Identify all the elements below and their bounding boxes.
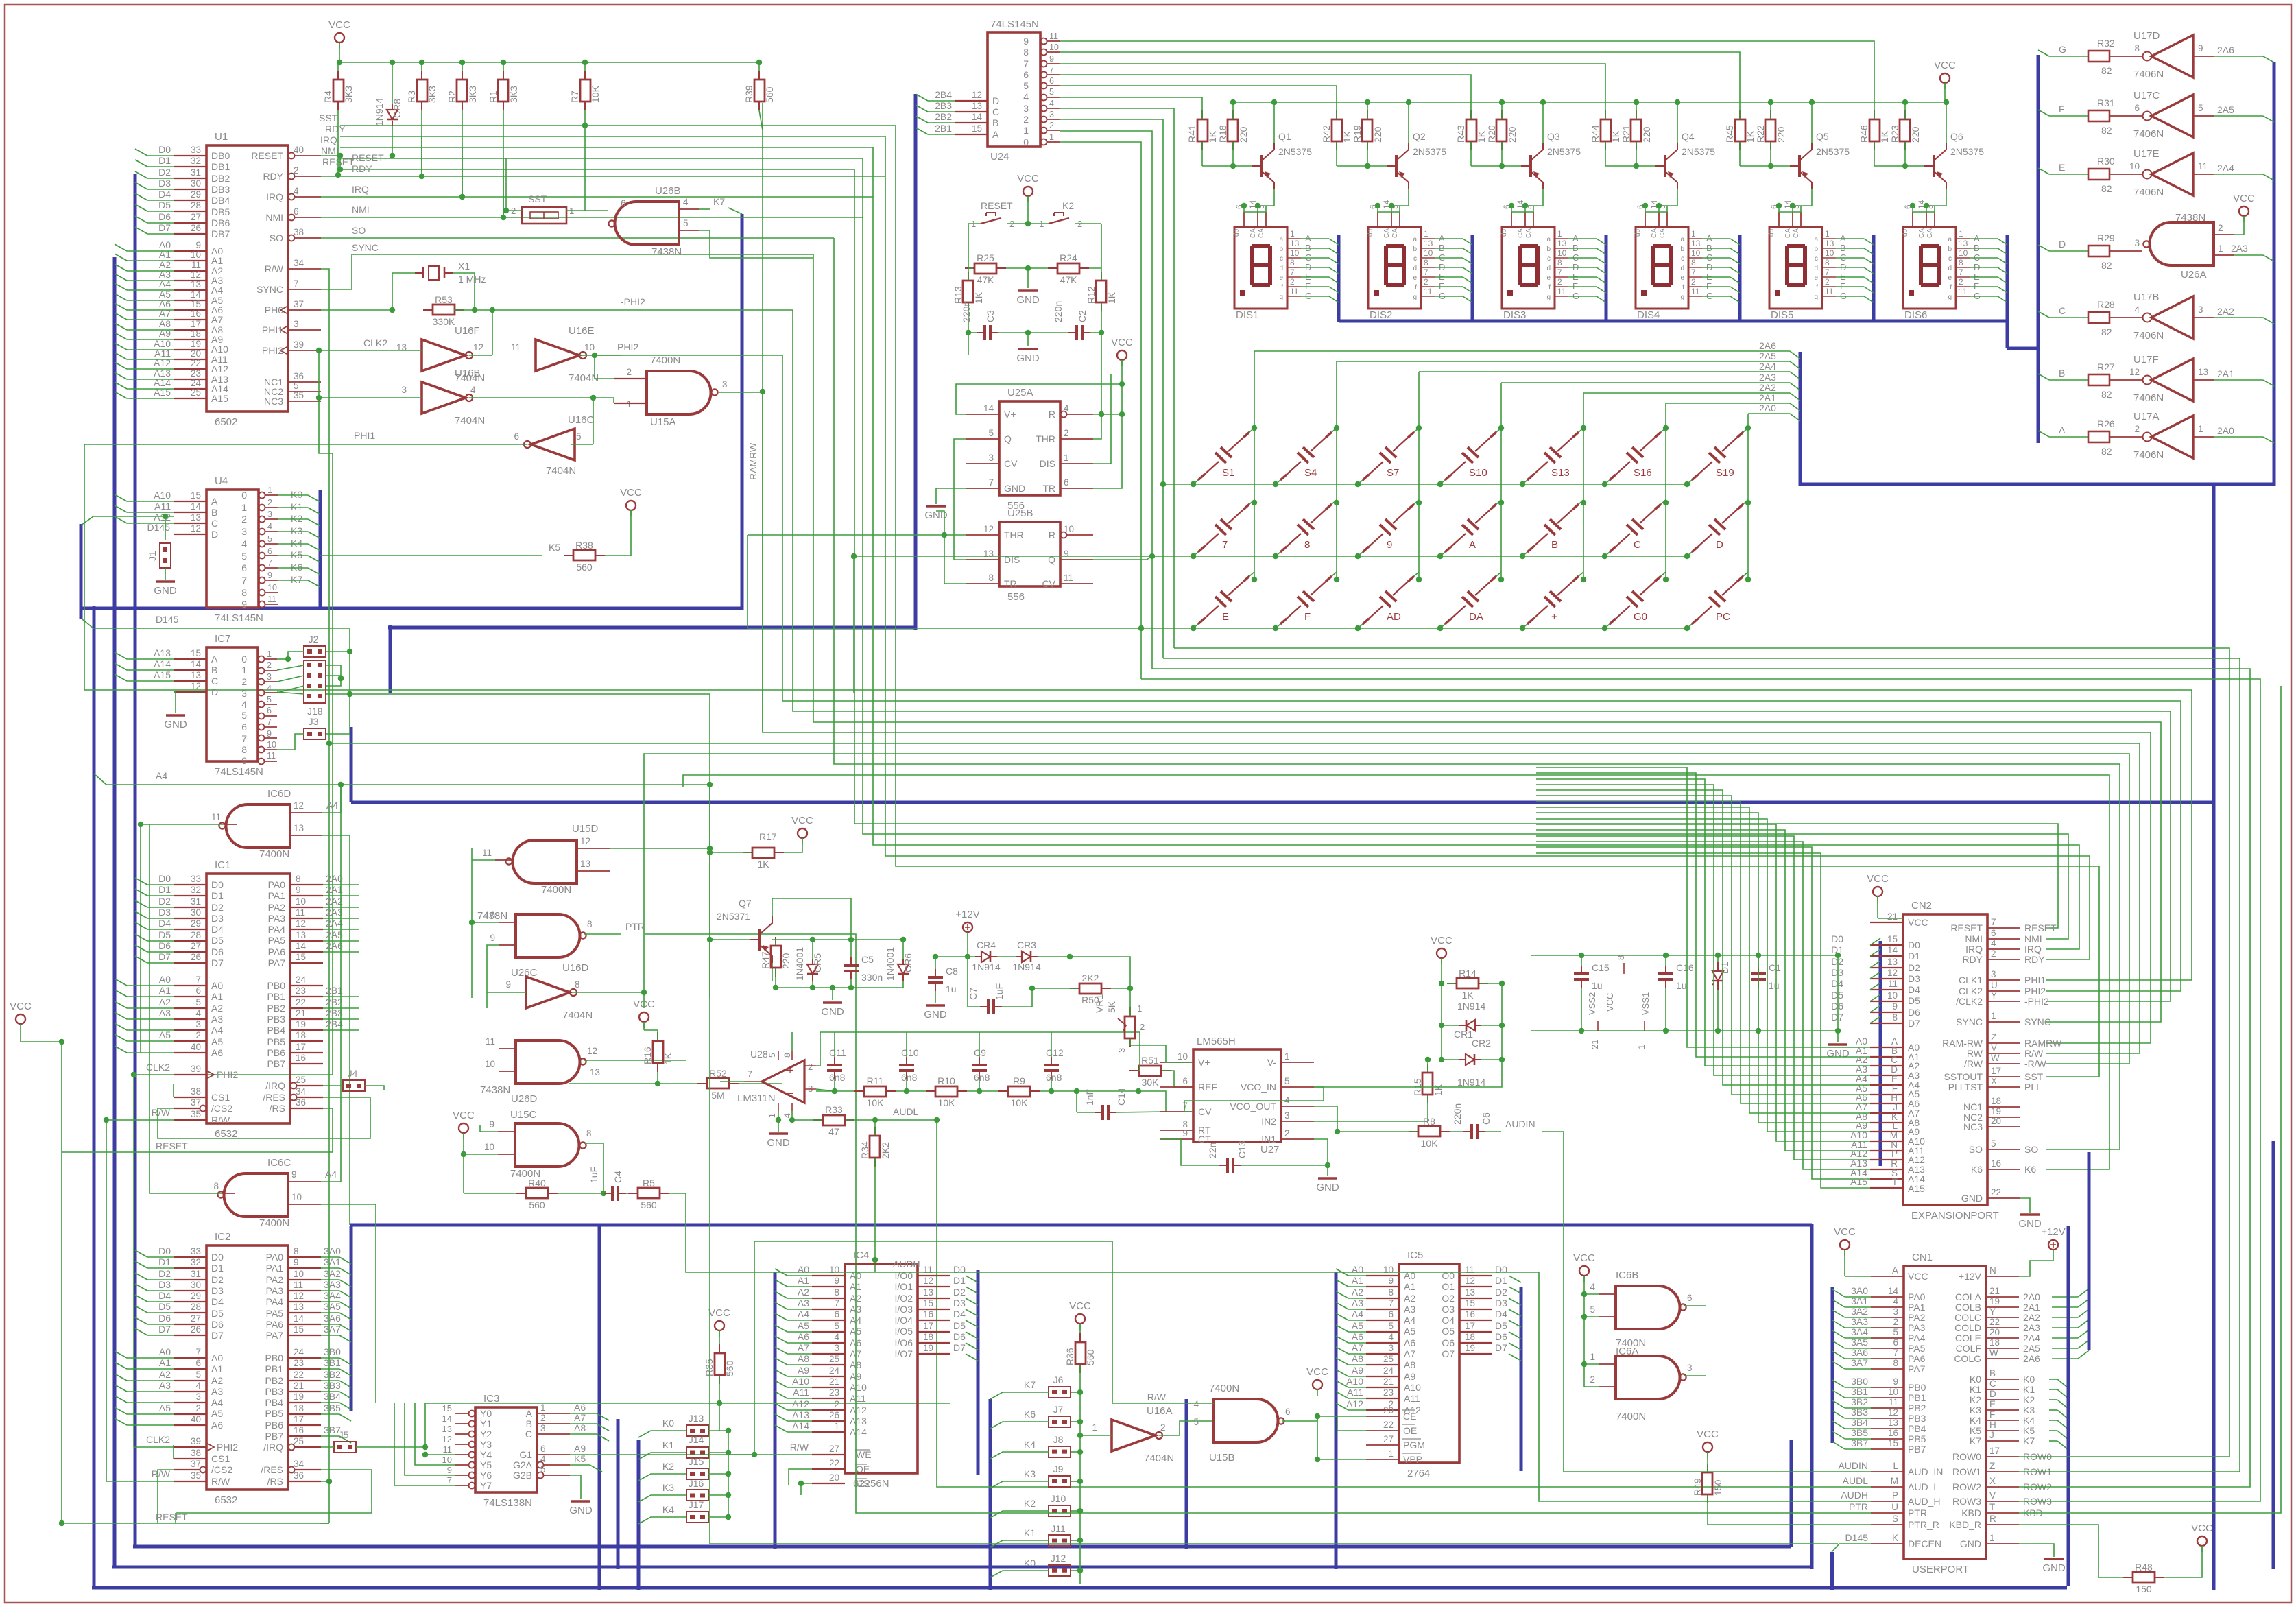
svg-text:U17A: U17A xyxy=(2133,411,2160,422)
svg-text:A12: A12 xyxy=(154,512,171,523)
svg-text:R49: R49 xyxy=(1692,1478,1703,1496)
svg-text:35: 35 xyxy=(191,1109,201,1119)
svg-text:3B7: 3B7 xyxy=(1851,1437,1868,1448)
svg-text:33: 33 xyxy=(191,1246,201,1256)
svg-text:O3: O3 xyxy=(1442,1304,1455,1315)
svg-text:5: 5 xyxy=(1193,1417,1199,1427)
svg-text:-PHI2: -PHI2 xyxy=(2024,996,2049,1007)
svg-text:C13: C13 xyxy=(1236,1141,1247,1158)
svg-text:3A7: 3A7 xyxy=(324,1324,341,1335)
svg-text:D: D xyxy=(992,95,999,106)
svg-text:D4: D4 xyxy=(953,1309,966,1320)
svg-text:EXPANSIONPORT: EXPANSIONPORT xyxy=(1911,1210,1999,1221)
svg-text:19: 19 xyxy=(1991,1106,2001,1117)
svg-text:DB5: DB5 xyxy=(211,206,230,217)
svg-text:8: 8 xyxy=(213,1181,219,1191)
svg-text:5: 5 xyxy=(294,381,299,391)
svg-text:A9: A9 xyxy=(574,1443,586,1454)
svg-text:CA: CA xyxy=(1651,228,1658,238)
svg-text:3: 3 xyxy=(1687,1363,1693,1373)
svg-text:Y1: Y1 xyxy=(480,1418,492,1429)
svg-text:A4: A4 xyxy=(211,285,223,296)
svg-text:RESET: RESET xyxy=(156,1141,188,1151)
svg-text:3: 3 xyxy=(241,526,247,537)
svg-text:37: 37 xyxy=(191,1459,201,1469)
svg-text:38: 38 xyxy=(191,1086,201,1097)
svg-text:R3: R3 xyxy=(406,91,417,103)
svg-text:a: a xyxy=(1279,236,1283,243)
svg-text:10: 10 xyxy=(1290,248,1300,258)
svg-text:220n: 220n xyxy=(1053,301,1064,322)
svg-text:J14: J14 xyxy=(689,1434,704,1445)
svg-text:1nF: 1nF xyxy=(1084,1089,1095,1106)
svg-text:8: 8 xyxy=(1825,258,1830,267)
svg-text:CA: CA xyxy=(1525,228,1533,238)
svg-text:6: 6 xyxy=(1388,1309,1394,1320)
svg-text:4: 4 xyxy=(2134,305,2140,315)
svg-text:PHI2: PHI2 xyxy=(262,345,283,356)
svg-text:PB2: PB2 xyxy=(265,1375,284,1386)
svg-text:7: 7 xyxy=(988,477,994,488)
svg-text:1K: 1K xyxy=(662,1052,673,1064)
svg-text:CA: CA xyxy=(1258,228,1265,238)
svg-text:R46: R46 xyxy=(1858,125,1869,143)
svg-text:11: 11 xyxy=(191,260,201,270)
svg-text:a: a xyxy=(1546,236,1551,243)
svg-text:8: 8 xyxy=(241,587,247,598)
svg-text:CS1: CS1 xyxy=(211,1092,230,1103)
svg-text:2: 2 xyxy=(267,660,272,670)
svg-text:5: 5 xyxy=(267,534,272,544)
svg-text:IC7: IC7 xyxy=(215,633,230,645)
svg-text:21: 21 xyxy=(1989,1286,2000,1296)
svg-text:1uF: 1uF xyxy=(588,1167,599,1183)
svg-text:11: 11 xyxy=(1049,32,1058,41)
svg-text:2: 2 xyxy=(626,367,632,377)
svg-text:WE: WE xyxy=(856,1449,872,1460)
svg-text:1N4001: 1N4001 xyxy=(885,947,896,981)
svg-text:A4: A4 xyxy=(1352,1309,1363,1320)
svg-text:c: c xyxy=(1413,255,1417,263)
svg-text:C: C xyxy=(2059,305,2066,316)
svg-text:10K: 10K xyxy=(867,1097,885,1108)
svg-text:PB4: PB4 xyxy=(1908,1423,1926,1434)
svg-text:9: 9 xyxy=(1892,1001,1898,1012)
svg-text:RESET: RESET xyxy=(156,1512,188,1523)
svg-text:2A3: 2A3 xyxy=(2023,1322,2040,1333)
svg-text:3B1: 3B1 xyxy=(1851,1386,1868,1397)
svg-text:CV: CV xyxy=(1198,1106,1212,1117)
svg-text:NMI: NMI xyxy=(2024,933,2042,944)
svg-text:9: 9 xyxy=(241,599,247,610)
svg-text:220: 220 xyxy=(1775,126,1786,143)
svg-text:1K: 1K xyxy=(973,291,984,304)
svg-text:2: 2 xyxy=(1284,1128,1290,1138)
svg-text:f: f xyxy=(1415,284,1417,291)
svg-text:V: V xyxy=(1991,1042,1997,1053)
svg-text:PLLTST: PLLTST xyxy=(1948,1082,1983,1093)
svg-text:RDY: RDY xyxy=(325,123,346,134)
svg-text:+: + xyxy=(787,1064,793,1077)
svg-text:D3: D3 xyxy=(158,907,171,918)
svg-text:R28: R28 xyxy=(2097,299,2115,310)
svg-text:A1: A1 xyxy=(211,991,223,1002)
svg-text:556: 556 xyxy=(1007,591,1025,603)
svg-text:DB1: DB1 xyxy=(211,161,230,172)
svg-text:A4: A4 xyxy=(850,1315,861,1326)
svg-text:PHI2: PHI2 xyxy=(617,342,638,353)
svg-text:A: A xyxy=(1892,1265,1898,1276)
svg-text:-PHI2: -PHI2 xyxy=(621,296,645,307)
svg-text:K2: K2 xyxy=(1970,1394,1981,1405)
svg-text:PB7: PB7 xyxy=(1908,1444,1926,1455)
svg-text:9: 9 xyxy=(1023,36,1029,47)
svg-text:E: E xyxy=(1989,1399,1996,1409)
svg-text:R25: R25 xyxy=(977,252,994,263)
svg-text:K5: K5 xyxy=(549,542,560,553)
svg-text:D2: D2 xyxy=(1908,962,1920,973)
svg-text:e: e xyxy=(1814,274,1818,282)
svg-text:R53: R53 xyxy=(435,294,453,305)
svg-text:4: 4 xyxy=(1064,403,1069,414)
svg-text:A0: A0 xyxy=(211,1352,223,1363)
svg-text:CA: CA xyxy=(1659,228,1666,238)
svg-text:2: 2 xyxy=(1590,1374,1595,1385)
svg-text:U16F: U16F xyxy=(455,325,480,337)
svg-text:DIS: DIS xyxy=(1040,458,1055,469)
svg-text:A: A xyxy=(1891,1036,1898,1047)
svg-text:R51: R51 xyxy=(1141,1055,1159,1066)
svg-text:dp: dp xyxy=(1902,228,1909,237)
svg-text:7400N: 7400N xyxy=(650,355,680,366)
svg-text:DECEN: DECEN xyxy=(1908,1538,1941,1549)
svg-text:CLK2: CLK2 xyxy=(1959,986,1983,997)
svg-text:3: 3 xyxy=(1116,1048,1127,1053)
svg-text:8: 8 xyxy=(241,744,247,755)
svg-text:A10: A10 xyxy=(792,1376,809,1387)
svg-text:U17D: U17D xyxy=(2133,30,2160,42)
svg-text:3K3: 3K3 xyxy=(427,86,438,103)
svg-text:g: g xyxy=(1948,294,1952,301)
svg-text:33: 33 xyxy=(191,145,201,155)
svg-text:GND: GND xyxy=(1016,294,1040,306)
svg-text:W: W xyxy=(1991,1053,2000,1063)
svg-text:8: 8 xyxy=(834,1287,839,1298)
svg-text:24: 24 xyxy=(829,1365,840,1376)
svg-text:5: 5 xyxy=(834,1321,839,1331)
svg-text:18: 18 xyxy=(1991,1096,2001,1106)
svg-text:6: 6 xyxy=(2134,103,2140,113)
svg-text:330n: 330n xyxy=(861,972,883,983)
svg-text:KBD: KBD xyxy=(1961,1507,1981,1518)
svg-text:24: 24 xyxy=(296,975,307,985)
svg-text:9: 9 xyxy=(296,885,301,895)
svg-text:6: 6 xyxy=(195,986,201,996)
svg-text:7: 7 xyxy=(1290,267,1295,277)
svg-text:A13: A13 xyxy=(792,1409,809,1420)
svg-text:PA4: PA4 xyxy=(1908,1333,1926,1344)
svg-text:J9: J9 xyxy=(1053,1464,1064,1475)
svg-text:1: 1 xyxy=(267,486,272,495)
svg-text:D5: D5 xyxy=(158,1301,171,1312)
svg-text:TR: TR xyxy=(1042,483,1055,494)
svg-text:CA: CA xyxy=(1926,228,1934,238)
svg-text:13: 13 xyxy=(294,823,304,833)
svg-text:25: 25 xyxy=(1383,1354,1394,1364)
svg-text:D3: D3 xyxy=(211,1285,224,1296)
svg-text:NMI: NMI xyxy=(321,145,339,156)
svg-text:d: d xyxy=(1680,265,1684,272)
svg-text:D2: D2 xyxy=(953,1287,966,1298)
svg-text:4: 4 xyxy=(1590,1282,1595,1292)
svg-text:220n: 220n xyxy=(961,301,972,322)
svg-text:13: 13 xyxy=(983,549,994,559)
svg-text:8: 8 xyxy=(294,1246,299,1256)
svg-text:3: 3 xyxy=(540,1423,546,1433)
svg-text:D: D xyxy=(211,687,218,697)
svg-text:6: 6 xyxy=(1182,1076,1188,1086)
svg-text:4: 4 xyxy=(1991,938,1996,948)
svg-text:11: 11 xyxy=(1424,287,1433,296)
svg-text:CV: CV xyxy=(1042,578,1056,589)
svg-text:R23: R23 xyxy=(1889,125,1900,143)
svg-text:A5: A5 xyxy=(159,1029,171,1040)
svg-text:10: 10 xyxy=(1959,248,1968,258)
svg-text:G0: G0 xyxy=(1634,611,1647,623)
svg-text:36: 36 xyxy=(294,371,304,381)
svg-text:D7: D7 xyxy=(1495,1342,1507,1353)
svg-text:A6: A6 xyxy=(211,1047,223,1058)
svg-text:a: a xyxy=(1680,236,1684,243)
svg-text:K0: K0 xyxy=(291,489,302,500)
svg-text:L: L xyxy=(1892,1121,1898,1131)
svg-text:U24: U24 xyxy=(990,151,1009,163)
svg-text:30: 30 xyxy=(191,907,201,918)
svg-text:CA: CA xyxy=(1517,228,1524,238)
svg-text:4: 4 xyxy=(267,522,272,532)
svg-text:21: 21 xyxy=(829,1376,839,1387)
svg-text:1: 1 xyxy=(241,665,247,676)
svg-text:D3: D3 xyxy=(158,178,171,189)
svg-text:Y4: Y4 xyxy=(480,1449,492,1460)
svg-text:15: 15 xyxy=(191,299,201,309)
svg-text:27: 27 xyxy=(191,1313,201,1324)
svg-text:SYNC: SYNC xyxy=(1956,1016,1983,1027)
svg-text:22: 22 xyxy=(296,997,306,1007)
svg-text:A2: A2 xyxy=(211,1375,223,1386)
svg-text:d: d xyxy=(1279,265,1283,272)
svg-text:2: 2 xyxy=(1064,428,1069,438)
svg-text:15: 15 xyxy=(1888,1438,1898,1448)
svg-text:+12V: +12V xyxy=(955,909,979,920)
svg-text:R32: R32 xyxy=(2097,38,2115,49)
svg-text:DB2: DB2 xyxy=(211,173,230,184)
svg-text:K7: K7 xyxy=(1970,1435,1981,1446)
svg-text:GND: GND xyxy=(767,1137,790,1149)
svg-text:Y2: Y2 xyxy=(480,1429,492,1440)
svg-text:a: a xyxy=(1948,236,1952,243)
svg-text:PA2: PA2 xyxy=(266,1274,284,1285)
svg-text:7438N: 7438N xyxy=(2175,212,2205,224)
svg-text:15: 15 xyxy=(1465,1298,1475,1309)
svg-text:Y3: Y3 xyxy=(480,1439,492,1450)
svg-text:A7: A7 xyxy=(211,314,223,325)
svg-text:C: C xyxy=(1989,1379,1996,1389)
svg-text:6: 6 xyxy=(834,1309,839,1320)
svg-text:8: 8 xyxy=(1691,258,1696,267)
svg-text:1N914: 1N914 xyxy=(1457,1001,1485,1012)
svg-text:R30: R30 xyxy=(2097,156,2115,167)
svg-text:15: 15 xyxy=(294,1324,304,1335)
svg-text:DA: DA xyxy=(1469,611,1483,623)
svg-text:10: 10 xyxy=(442,1455,452,1465)
svg-text:17: 17 xyxy=(1991,1066,2001,1076)
svg-text:8: 8 xyxy=(296,874,301,884)
svg-text:6: 6 xyxy=(1687,1293,1693,1303)
svg-text:R44: R44 xyxy=(1590,125,1601,143)
svg-text:D1: D1 xyxy=(953,1275,966,1286)
svg-text:3: 3 xyxy=(294,319,299,329)
svg-text:C10: C10 xyxy=(901,1047,919,1058)
svg-text:K7: K7 xyxy=(291,574,302,585)
svg-text:82: 82 xyxy=(2101,260,2112,271)
svg-text:F: F xyxy=(1304,611,1311,623)
svg-text:U15D: U15D xyxy=(572,823,599,835)
svg-text:f: f xyxy=(1682,284,1684,291)
svg-text:A7: A7 xyxy=(1352,1342,1363,1353)
svg-text:A8: A8 xyxy=(1404,1359,1415,1370)
svg-text:20: 20 xyxy=(1383,1405,1394,1416)
svg-text:R: R xyxy=(1989,1514,1996,1524)
svg-text:1u: 1u xyxy=(946,983,957,994)
svg-text:20: 20 xyxy=(191,348,201,359)
svg-text:3: 3 xyxy=(1049,110,1054,119)
svg-text:D7: D7 xyxy=(1831,1012,1843,1023)
svg-text:D0: D0 xyxy=(158,144,171,155)
svg-text:R/W: R/W xyxy=(790,1442,809,1453)
svg-text:15: 15 xyxy=(972,123,982,134)
svg-text:U27: U27 xyxy=(1260,1144,1280,1156)
svg-text:7: 7 xyxy=(1023,58,1029,69)
svg-text:A15: A15 xyxy=(1850,1176,1867,1187)
svg-text:5: 5 xyxy=(1590,1304,1595,1315)
svg-text:PA1: PA1 xyxy=(1908,1302,1926,1313)
svg-text:D5: D5 xyxy=(211,1308,224,1319)
svg-text:1: 1 xyxy=(1691,229,1696,239)
svg-text:PA2: PA2 xyxy=(1908,1312,1926,1323)
svg-text:E: E xyxy=(1222,611,1229,623)
svg-text:−: − xyxy=(787,1087,793,1100)
svg-text:GND: GND xyxy=(1004,483,1025,494)
svg-text:K5: K5 xyxy=(1970,1425,1981,1436)
svg-text:COLF: COLF xyxy=(1956,1343,1981,1354)
svg-text:K1: K1 xyxy=(291,501,302,512)
svg-text:4: 4 xyxy=(1388,1332,1394,1342)
svg-text:2B3: 2B3 xyxy=(935,100,952,111)
svg-text:3A4: 3A4 xyxy=(1851,1326,1868,1337)
svg-text:COLB: COLB xyxy=(1955,1302,1981,1313)
svg-text:9: 9 xyxy=(1893,1376,1898,1387)
svg-text:CA: CA xyxy=(1918,228,1926,238)
svg-text:COLA: COLA xyxy=(1955,1291,1982,1302)
svg-text:A3: A3 xyxy=(798,1298,809,1309)
svg-text:PA1: PA1 xyxy=(266,1263,284,1274)
svg-text:2: 2 xyxy=(1160,1422,1166,1433)
svg-text:D1: D1 xyxy=(158,155,171,166)
svg-text:13: 13 xyxy=(1557,239,1567,248)
svg-text:K3: K3 xyxy=(1970,1405,1981,1416)
svg-text:S4: S4 xyxy=(1304,467,1317,479)
svg-text:A13: A13 xyxy=(850,1416,867,1427)
svg-text:K0: K0 xyxy=(2023,1374,2035,1385)
svg-text:/IRQ: /IRQ xyxy=(265,1080,285,1091)
svg-text:2: 2 xyxy=(1023,114,1029,125)
svg-text:560: 560 xyxy=(724,1360,735,1376)
svg-text:2A5: 2A5 xyxy=(1759,350,1776,361)
svg-text:K2: K2 xyxy=(1062,200,1074,211)
svg-text:5: 5 xyxy=(195,997,201,1007)
svg-text:VCC: VCC xyxy=(2233,193,2255,204)
svg-text:b: b xyxy=(1279,246,1283,253)
svg-text:4: 4 xyxy=(1893,1296,1898,1306)
svg-text:7: 7 xyxy=(1959,267,1963,277)
svg-text:9: 9 xyxy=(489,1119,494,1130)
svg-text:PA3: PA3 xyxy=(1908,1322,1926,1333)
svg-text:28: 28 xyxy=(191,200,201,211)
svg-text:A2: A2 xyxy=(159,1369,171,1380)
svg-text:R5: R5 xyxy=(643,1178,655,1189)
svg-text:CLK2: CLK2 xyxy=(363,337,387,348)
svg-text:IC4: IC4 xyxy=(853,1250,869,1261)
svg-text:Q5: Q5 xyxy=(1816,131,1829,142)
svg-text:d: d xyxy=(1546,265,1551,272)
svg-text:10K: 10K xyxy=(1421,1138,1439,1149)
svg-text:SO: SO xyxy=(270,232,283,243)
svg-text:10K: 10K xyxy=(590,85,601,103)
svg-text:4: 4 xyxy=(1049,99,1054,108)
svg-text:11: 11 xyxy=(1557,287,1566,296)
svg-text:U16E: U16E xyxy=(569,325,595,337)
svg-text:0: 0 xyxy=(241,654,247,665)
svg-text:18: 18 xyxy=(191,329,201,339)
svg-text:GND: GND xyxy=(1961,1193,1983,1204)
svg-text:D3: D3 xyxy=(158,1279,171,1290)
svg-text:6: 6 xyxy=(540,1444,546,1454)
svg-text:18: 18 xyxy=(1989,1337,2000,1348)
svg-text:74LS145N: 74LS145N xyxy=(215,766,263,778)
svg-text:C7: C7 xyxy=(968,988,979,1000)
svg-text:VCC: VCC xyxy=(633,999,655,1010)
svg-text:16: 16 xyxy=(923,1309,933,1320)
svg-text:X: X xyxy=(1991,1076,1997,1086)
svg-text:2: 2 xyxy=(1959,277,1963,287)
svg-text:14: 14 xyxy=(1888,1286,1899,1296)
svg-text:CR8: CR8 xyxy=(392,99,403,118)
svg-text:1: 1 xyxy=(1064,453,1069,463)
svg-text:PA6: PA6 xyxy=(268,946,286,957)
svg-text:J2: J2 xyxy=(309,634,319,645)
svg-text:GND: GND xyxy=(1316,1182,1339,1193)
svg-text:6: 6 xyxy=(1285,1407,1291,1417)
svg-text:O1: O1 xyxy=(1442,1281,1455,1292)
svg-text:5: 5 xyxy=(540,1464,546,1475)
svg-text:10: 10 xyxy=(2129,161,2140,171)
svg-text:CR4: CR4 xyxy=(977,940,996,951)
svg-text:U: U xyxy=(1991,980,1998,990)
svg-text:1: 1 xyxy=(767,1113,777,1118)
svg-text:1: 1 xyxy=(834,1421,839,1431)
svg-text:7404N: 7404N xyxy=(1144,1453,1174,1464)
